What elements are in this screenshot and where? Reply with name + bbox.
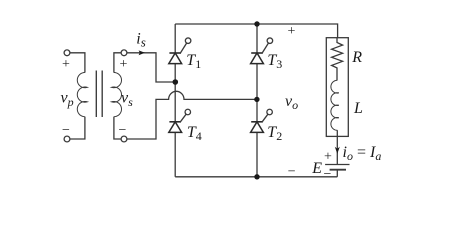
svg-text:T3: T3 [267, 52, 282, 71]
wire secondary bottom lead [114, 117, 121, 139]
load box [326, 38, 348, 137]
wire bottom rail [175, 176, 337, 178]
transformer secondary winding [112, 73, 122, 117]
svg-text:T2: T2 [267, 124, 282, 143]
wire left leg upper [174, 24, 176, 53]
thyristor T3 [251, 38, 273, 64]
wire left leg lower [174, 132, 176, 176]
inductor L [331, 80, 339, 130]
wire right leg middle [256, 64, 258, 122]
svg-text:io = Ia: io = Ia [343, 144, 382, 163]
primary terminal bottom [64, 136, 70, 142]
thyristor T4 [169, 109, 191, 132]
battery E plate long [325, 164, 349, 166]
wire top rail [175, 24, 337, 38]
transformer primary winding [77, 73, 87, 117]
svg-text:−: − [288, 165, 296, 180]
secondary terminal top [121, 50, 127, 56]
svg-text:+: + [120, 57, 128, 72]
wire secondary top lead [114, 53, 121, 73]
svg-text:+: + [324, 150, 332, 165]
primary terminal top [64, 50, 70, 56]
secondary terminal bottom [121, 136, 127, 142]
svg-text:−: − [324, 167, 332, 182]
bottom rail junction dot [254, 174, 259, 179]
wire battery to bottom rail [336, 170, 338, 177]
node A junction dot [173, 79, 179, 85]
resistor R [332, 38, 343, 81]
battery E plate short [330, 169, 346, 171]
transformer core [96, 71, 102, 118]
wire load to battery [336, 136, 338, 164]
wire right leg upper [256, 24, 258, 53]
wire is: secondary top to node A [127, 53, 175, 82]
svg-text:vs: vs [121, 89, 133, 109]
node B junction dot [254, 97, 259, 102]
wire secondary bottom to node B with hop over left leg [127, 91, 257, 139]
svg-text:R: R [351, 49, 362, 66]
svg-text:E: E [311, 160, 322, 177]
svg-text:+: + [288, 24, 296, 39]
wire primary top lead [70, 53, 85, 73]
arrow is [139, 50, 145, 55]
svg-text:T4: T4 [187, 124, 202, 143]
svg-text:−: − [62, 123, 70, 138]
svg-text:is: is [136, 31, 146, 50]
wire load bottom lead [336, 130, 338, 136]
arrow io [335, 147, 340, 154]
thyristor T2 [251, 109, 273, 132]
wire primary bottom lead [70, 117, 85, 139]
svg-text:−: − [119, 123, 127, 138]
thyristor T1 [169, 38, 191, 64]
svg-text:T1: T1 [186, 52, 201, 71]
wire right leg lower [256, 132, 258, 176]
svg-text:+: + [62, 57, 70, 72]
top rail junction dot [254, 21, 259, 26]
svg-text:L: L [353, 100, 363, 117]
svg-text:vo: vo [285, 93, 298, 112]
svg-text:vp: vp [61, 89, 74, 109]
wire left leg middle [174, 64, 176, 122]
